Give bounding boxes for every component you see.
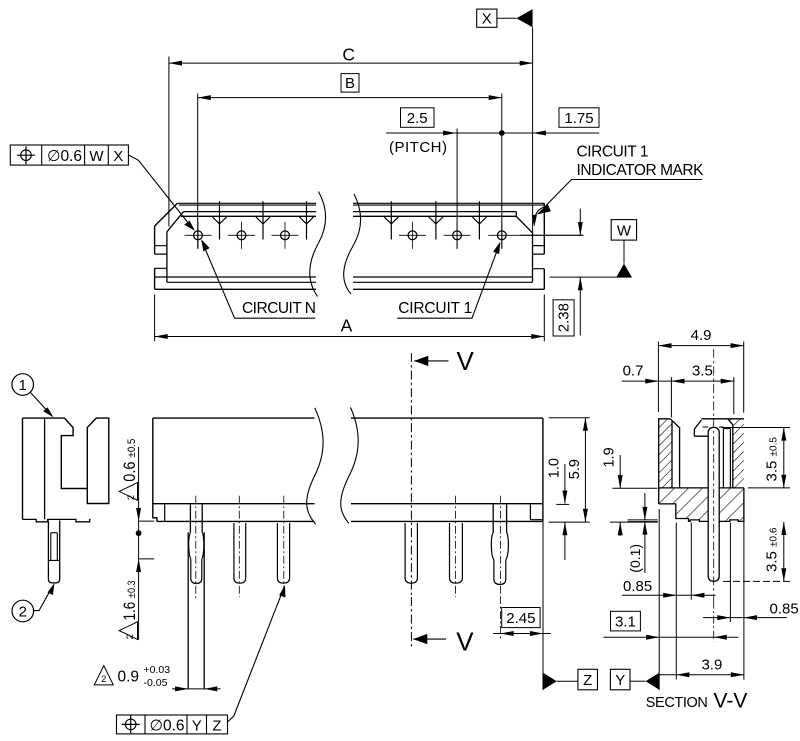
dimension 2.5 / 1.75 line: [386, 132, 599, 134]
svg-text:V-V: V-V: [714, 690, 748, 713]
svg-text:2: 2: [125, 634, 136, 639]
front view bottom edge: [157, 520, 543, 522]
top-left inner chamfer: [167, 212, 184, 232]
svg-text:Y: Y: [192, 717, 202, 734]
svg-text:B: B: [345, 75, 355, 92]
label 2.38 boxed rotated: [553, 300, 574, 336]
slot marks right group: [384, 201, 487, 239]
circuit 1 indicator chamfer: [516, 212, 532, 233]
0.6 upper arrow: [136, 508, 141, 521]
datum X connector line: [497, 17, 517, 19]
section slot channel: [723, 429, 730, 488]
pin 5 centerline: [455, 496, 457, 597]
svg-text:4.9: 4.9: [691, 327, 712, 344]
svg-text:3.1: 3.1: [615, 613, 636, 630]
datum X box: [477, 9, 497, 27]
datum Y connector: [630, 680, 646, 682]
section base hatched left: [659, 488, 709, 522]
extension lines for 0.6/1.6: [139, 521, 155, 559]
0.7 and 3.5 dimension line: [622, 380, 734, 382]
svg-text:1: 1: [19, 377, 27, 394]
svg-text:W: W: [617, 223, 632, 240]
front view break line left: [307, 408, 323, 524]
bottom line 3: [155, 288, 545, 290]
section left wall hatched: [659, 419, 672, 488]
hole circuit N: [185, 222, 212, 249]
section line V-V centerline: [410, 353, 412, 597]
svg-text:Y: Y: [615, 672, 625, 689]
svg-text:CIRCUIT 1: CIRCUIT 1: [398, 300, 472, 317]
dimension B arrows: [198, 95, 211, 100]
extension top for 5.9: [549, 417, 590, 419]
svg-text:-0.05: -0.05: [144, 677, 168, 689]
right outer edge: [543, 203, 545, 289]
side view pin crimp detail: [48, 533, 59, 561]
dim origin dot: [136, 530, 142, 536]
hole 2: [228, 222, 255, 249]
datum Y box: [610, 669, 630, 690]
(0.1) dimension: [644, 493, 646, 573]
left inner wall edge: [166, 232, 168, 282]
pin 2 centerline: [238, 496, 240, 597]
front view top edge: [153, 417, 543, 419]
hole 5: [444, 222, 471, 249]
4.9 dimension: [658, 345, 743, 347]
feature control frame position dia0.6 W X: [10, 145, 128, 165]
2.38 extension line bottom: [550, 276, 632, 278]
side view pin: [48, 521, 59, 583]
dimension C extension line left: [168, 57, 170, 227]
0.85 left dimension: [622, 594, 716, 596]
section pin centerline: [713, 349, 715, 601]
dimension B extension line: [197, 94, 199, 249]
feature control frame leader to hole N: [128, 155, 193, 229]
svg-text:X: X: [113, 148, 123, 165]
0.85 right dimension: [703, 617, 787, 619]
pin 5: [450, 523, 463, 583]
right inner wall edge (datum X face): [532, 233, 534, 282]
1.6 lower arrow: [136, 559, 141, 572]
datum W box: [611, 220, 636, 241]
extension for 1.0 top: [556, 503, 569, 505]
bottom line 1: [155, 276, 533, 278]
dimension A arrows: [155, 334, 168, 339]
datum Y filled triangle: [646, 673, 660, 690]
side view body outline: [23, 418, 88, 488]
svg-text:X: X: [482, 10, 492, 27]
svg-text:2: 2: [101, 674, 106, 685]
svg-text:W: W: [89, 148, 104, 165]
svg-text:SECTION: SECTION: [646, 695, 708, 711]
svg-text:0.9: 0.9: [118, 669, 140, 686]
top view inner top line: [184, 211, 517, 213]
1.75 arrow: [533, 131, 546, 136]
svg-text:5.9: 5.9: [567, 459, 583, 479]
front view end-cap divider left: [164, 504, 166, 522]
svg-text:V: V: [457, 346, 475, 376]
front view end-cap divider right and recess: [530, 504, 542, 520]
dim 0.6 / 1.6 vertical dimension line: [138, 447, 140, 640]
3.5 +-0.5 dimension right: [783, 428, 785, 488]
pin 1 barrel curves: [189, 532, 204, 559]
dimension B line: [198, 97, 502, 99]
section right wall hatched: [728, 419, 744, 488]
pin 1 upper sides: [190, 504, 202, 532]
front view right edge: [542, 418, 544, 521]
svg-text:(PITCH): (PITCH): [389, 139, 447, 156]
pin 6 barrel: [491, 532, 508, 560]
section tongue with chamfer: [670, 419, 679, 488]
dimension C line: [169, 62, 533, 64]
left outer edge: [154, 226, 156, 289]
pin 1 lower contact with round tip: [191, 559, 202, 583]
note flag triangle 2 (1.6 dim): [119, 622, 137, 640]
1.0 dimension: [564, 464, 566, 560]
pin centerline extension for 3.1: [713, 601, 715, 642]
balloon 1: [12, 374, 34, 396]
pin 1 centerline: [195, 496, 197, 599]
label 2.5 boxed: [401, 108, 435, 128]
datum Z filled triangle: [543, 673, 557, 690]
balloon 2: [12, 600, 34, 622]
2.38 dimension line: [579, 209, 581, 336]
side view left edge: [22, 418, 24, 519]
0.9 dimension line: [172, 688, 221, 690]
2.5 arrow: [443, 131, 456, 136]
datum Z box: [578, 669, 598, 690]
break line right: [344, 194, 361, 294]
svg-text:Z: Z: [212, 717, 221, 734]
hole circuit 1: [488, 222, 583, 249]
3.9 dimension: [657, 674, 744, 676]
svg-text:CIRCUIT N: CIRCUIT N: [242, 300, 316, 317]
side view bottom edge with feet: [23, 519, 91, 521]
datum Z extension line (front right edge): [542, 522, 544, 690]
pedestal bar bottom edges: [703, 426, 724, 428]
datum W stem: [623, 240, 625, 264]
3.5 +-0.6 dimension right: [783, 522, 785, 582]
svg-text:0.85: 0.85: [770, 601, 799, 618]
pin 4 at section line: [405, 523, 417, 583]
svg-text:2: 2: [126, 495, 137, 500]
svg-text:1.0: 1.0: [547, 458, 563, 478]
svg-text:0.85: 0.85: [623, 578, 652, 595]
frame2 leader to pin3 tip: [228, 588, 284, 722]
svg-text:A: A: [341, 316, 353, 336]
front view break line right: [341, 407, 358, 523]
left wall notch lines: [155, 246, 167, 269]
right wall notch lines: [533, 246, 545, 269]
2.45 extension via pin6 centerline: [500, 596, 502, 640]
front view left edge with step: [153, 418, 157, 521]
datum W filled triangle: [617, 264, 632, 277]
section top edge over pedestal and right wall: [701, 418, 744, 420]
pin 6 centerline: [500, 496, 502, 596]
svg-text:∅0.6: ∅0.6: [47, 148, 82, 165]
top-left outer chamfer: [155, 203, 178, 226]
datum X extension line: [532, 27, 534, 233]
dimension A extension lines: [155, 295, 545, 342]
datum X filled triangle: [516, 9, 532, 27]
indicator mark curved arrow: [534, 207, 545, 224]
svg-text:2.5: 2.5: [407, 110, 428, 127]
pin 2: [234, 523, 246, 583]
svg-text:INDICATOR MARK: INDICATOR MARK: [577, 162, 705, 179]
bottom line 2: [167, 281, 533, 283]
hole 3: [272, 222, 299, 249]
extension bottom for 1.0/5.9: [549, 521, 590, 523]
pin 3: [277, 523, 289, 583]
pin 6 upper sides: [493, 504, 506, 532]
label 2.45 boxed: [502, 608, 540, 628]
2.38 extension line top: [520, 234, 583, 236]
svg-text:Z: Z: [583, 672, 592, 689]
section base hatched right: [719, 488, 744, 522]
section arrow bottom: [413, 638, 446, 640]
note flag triangle 2 (0.9 dim): [94, 666, 113, 685]
top view slot-bottom inner line: [181, 215, 517, 217]
svg-text:+0.03: +0.03: [144, 664, 171, 676]
2.45 dimension line: [493, 633, 551, 635]
hole 4: [399, 222, 426, 249]
extension line hole 5: [456, 129, 458, 249]
break line left: [310, 192, 326, 297]
dimension A line: [155, 336, 545, 338]
datum Z connector: [557, 680, 578, 682]
svg-text:CIRCUIT 1: CIRCUIT 1: [577, 144, 649, 161]
3.1 dimension: [611, 611, 641, 631]
top view body top outer edge line 1: [177, 202, 544, 204]
extension line hole circuit1: [501, 94, 503, 249]
section arrow top: [414, 360, 448, 362]
note flag triangle 2 (0.6 dim): [119, 483, 137, 501]
pin 1 rear long pin sides (0.9 feature): [188, 532, 204, 689]
svg-text:∅0.6: ∅0.6: [150, 717, 185, 734]
pin 3 centerline: [283, 496, 285, 597]
svg-text:3.9: 3.9: [701, 657, 722, 674]
side view internal wall line: [44, 418, 46, 519]
indicator mark leader: [546, 180, 702, 206]
top view body top outer edge line 2: [179, 204, 544, 206]
label B boxed: [341, 74, 359, 93]
pin 6 lower contact: [494, 560, 506, 584]
junction dot on circuit1 extension: [499, 130, 505, 136]
svg-text:(0.1): (0.1): [627, 544, 643, 573]
section pedestal: [694, 420, 708, 436]
5.9 dimension: [584, 418, 586, 522]
svg-text:1.9: 1.9: [601, 447, 617, 467]
svg-text:2.45: 2.45: [506, 610, 535, 627]
svg-text:0.7: 0.7: [623, 363, 644, 380]
svg-text:2.38: 2.38: [556, 303, 573, 332]
feature control frame position dia0.6 Y Z: [117, 715, 228, 734]
svg-text:V: V: [456, 626, 474, 656]
svg-text:3.5: 3.5: [692, 362, 713, 379]
section pin: [708, 427, 719, 433]
section base top edge: [659, 487, 744, 489]
svg-text:C: C: [342, 45, 355, 65]
dimension C arrows: [169, 61, 182, 66]
2.38 arrows: [578, 222, 583, 235]
label 1.75 boxed: [559, 108, 599, 128]
slot marks left group: [212, 201, 314, 239]
front view strip top line: [153, 503, 543, 505]
datum Y extension line: [658, 509, 660, 690]
1.9 dimension: [619, 455, 621, 536]
svg-text:2: 2: [19, 604, 27, 621]
side view rear wall piece: [87, 418, 109, 503]
svg-text:1.75: 1.75: [564, 110, 593, 127]
